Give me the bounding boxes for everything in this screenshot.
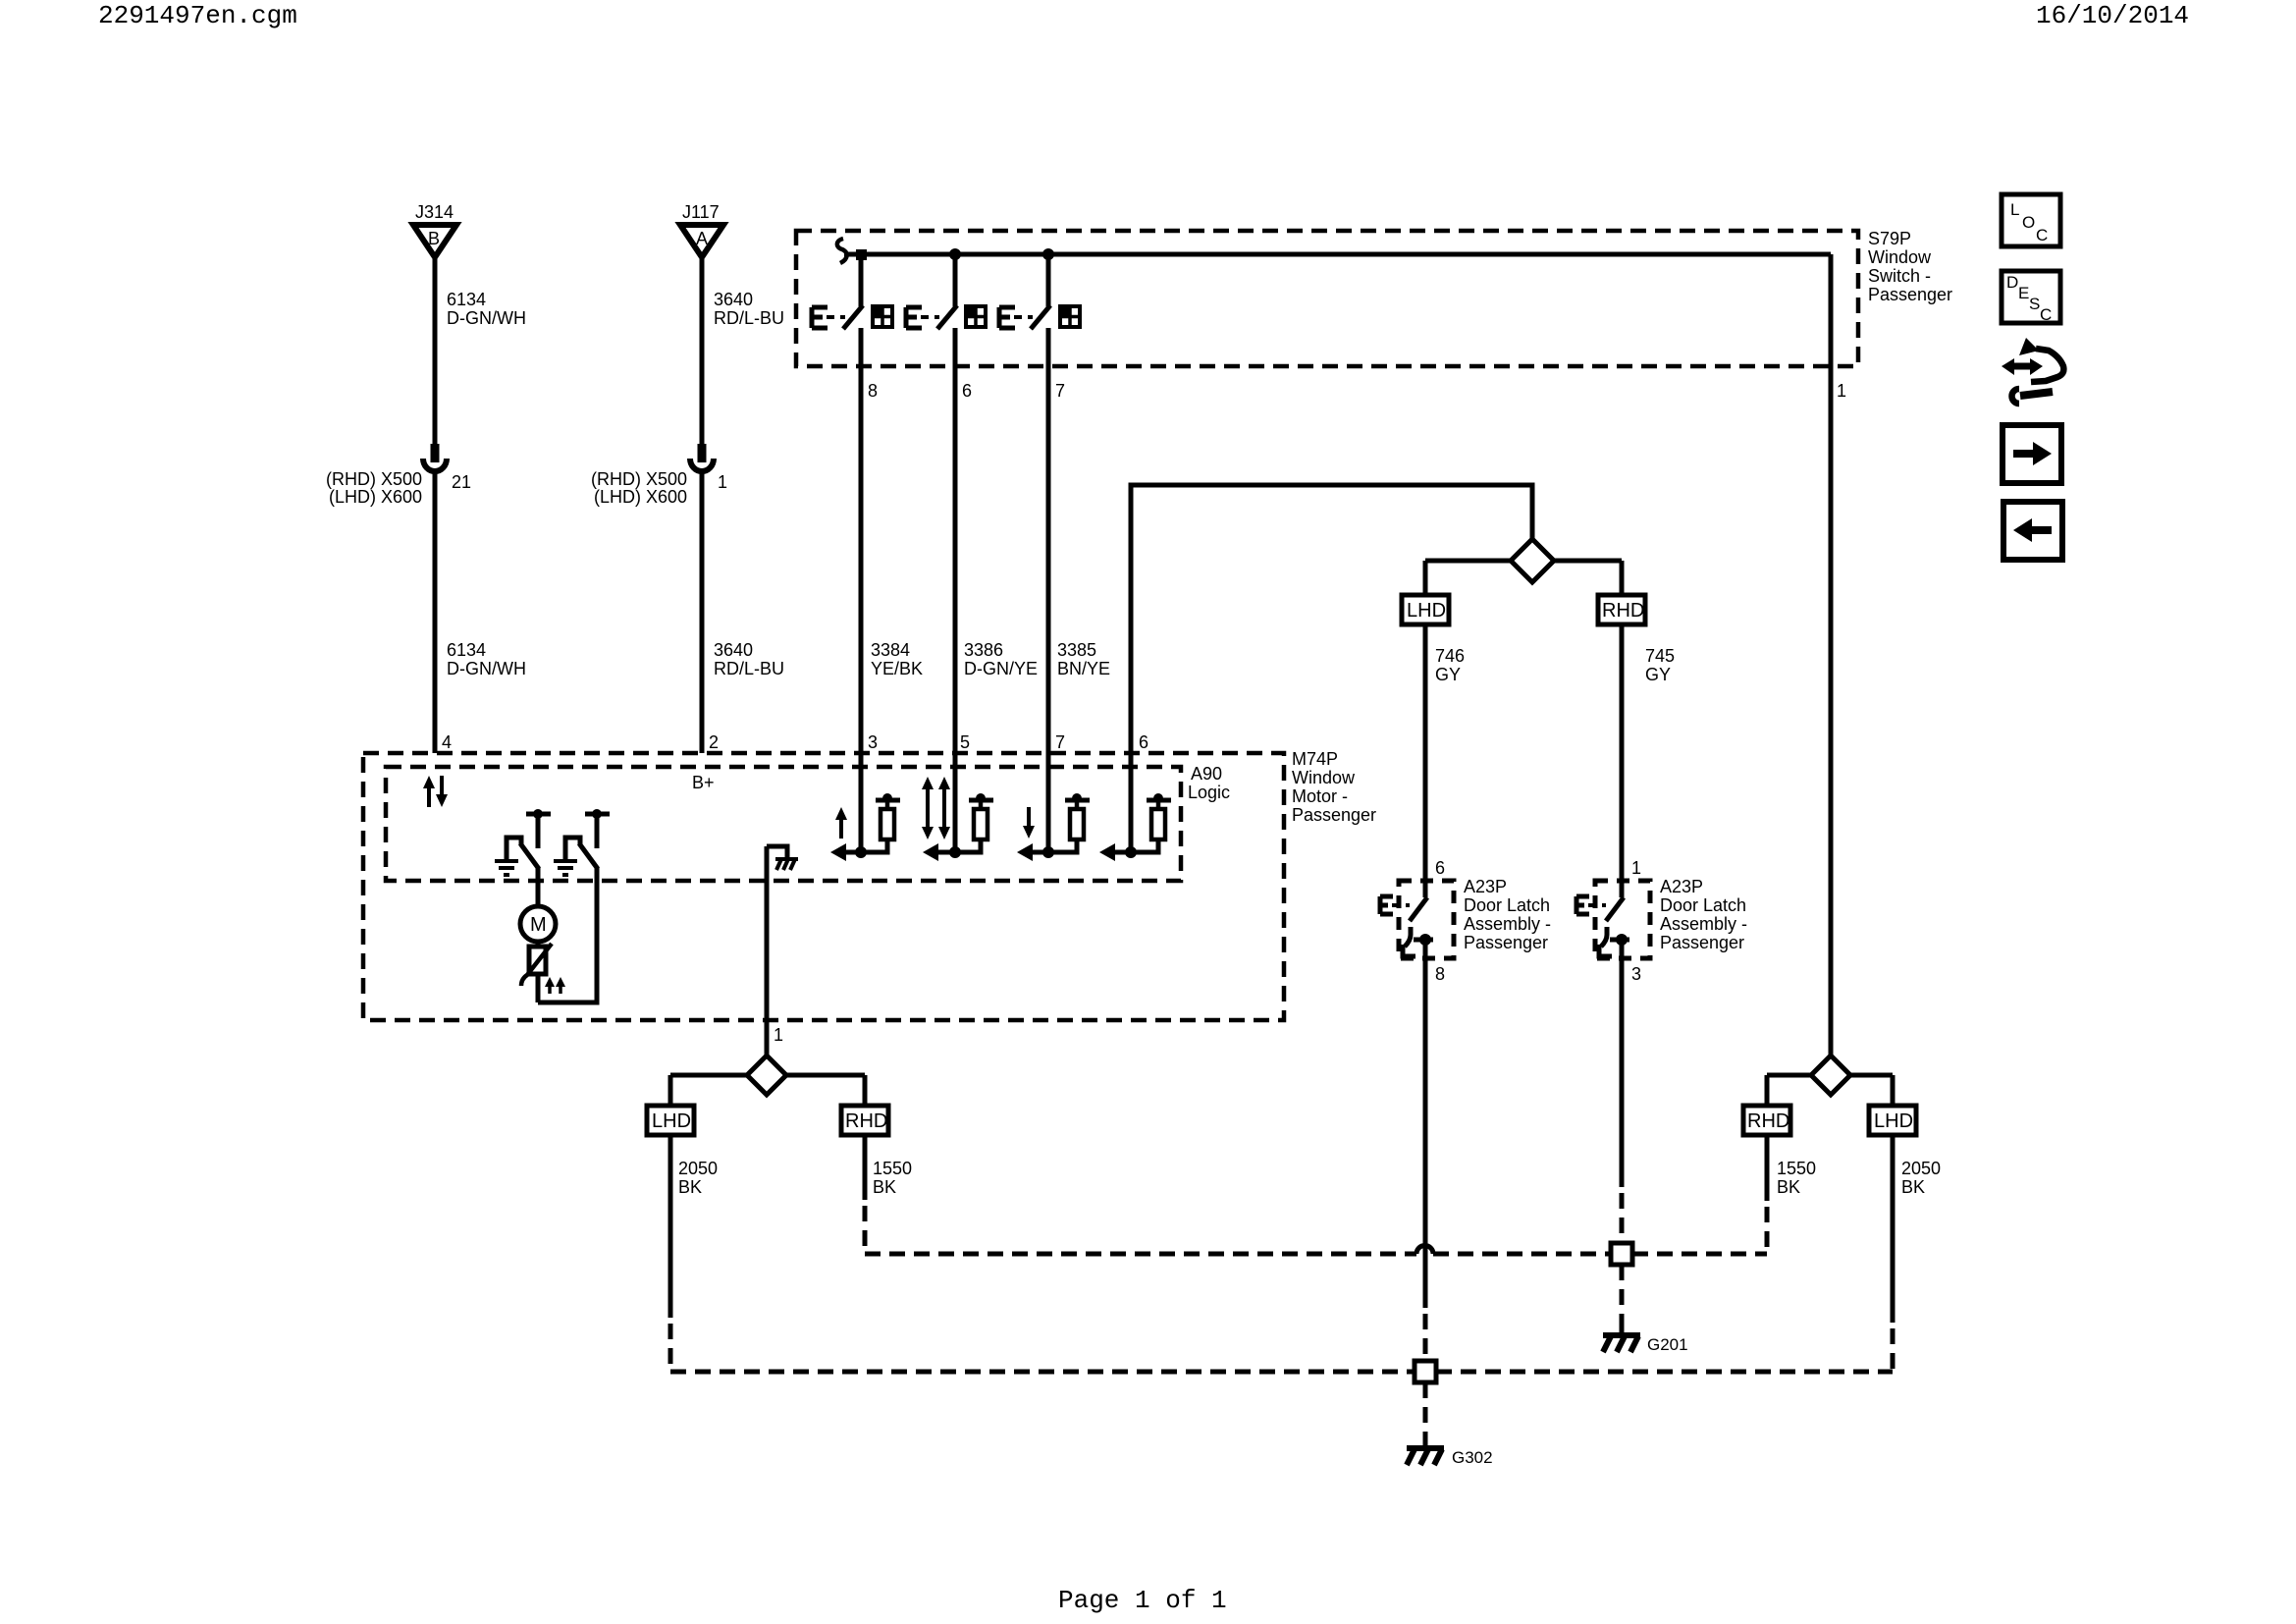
svg-text:16/10/2014: 16/10/2014 [2036,1,2189,30]
ground G302 [1407,1435,1493,1467]
connector J314 triangle B [413,225,456,257]
svg-text:BK: BK [873,1177,896,1197]
connector pin labels (RHD) X500 / (LHD) X600 at J117 [591,469,727,507]
ground G201 [1603,1318,1688,1354]
wire switch pin1 down right side [1829,254,1834,1056]
A90 logic box (dashed) [386,767,1181,881]
svg-text:(LHD) X600: (LHD) X600 [594,487,687,507]
DESC icon box [2002,271,2060,324]
svg-text:1: 1 [1837,381,1846,401]
wire LHD-right down (solid then dashed) [1891,1135,1896,1323]
svg-text:J314: J314 [415,202,454,222]
svg-text:7: 7 [1055,732,1065,752]
svg-text:BN/YE: BN/YE [1057,659,1110,678]
svg-text:L: L [2010,200,2019,219]
svg-text:6: 6 [1435,858,1445,878]
svg-text:Passenger: Passenger [1292,805,1376,825]
svg-text:3385: 3385 [1057,640,1096,660]
wire switch2 down and loop to thermistor [538,868,597,1002]
svg-text:D-GN/WH: D-GN/WH [447,659,526,678]
chassis ground inside motor box [767,846,798,870]
svg-text:J117: J117 [682,202,720,222]
svg-text:G302: G302 [1452,1448,1493,1467]
wire right branch down (right group) [1891,1075,1896,1106]
svg-text:Passenger: Passenger [1660,933,1744,952]
svg-text:21: 21 [452,472,471,492]
diamond splice mid-right [1511,539,1554,582]
S79P window switch box (dashed) [796,231,1858,366]
wire switch1 to motor M [536,868,541,908]
RHD tag box mid [1598,595,1645,624]
svg-text:M74P: M74P [1292,749,1338,769]
switch 3 (window down) [999,254,1080,366]
svg-text:Passenger: Passenger [1868,285,1952,304]
wire diamond to RHD/LHD branches (right) [1767,1073,1893,1078]
svg-text:E: E [2018,284,2029,302]
A90 Logic label [1188,764,1230,802]
svg-text:Door Latch: Door Latch [1660,895,1746,915]
wire diamond to LHD/RHD branches (mid) [1425,559,1622,564]
wire motor pin1 down [765,846,770,1056]
svg-text:6134: 6134 [447,290,486,309]
LHD tag box bottom-left [647,1106,694,1135]
svg-text:B+: B+ [692,773,715,792]
svg-text:6134: 6134 [447,640,486,660]
svg-text:Window: Window [1292,768,1356,787]
svg-text:4: 4 [442,732,452,752]
inline connector X500/X600 (J314 wire) [423,444,447,471]
svg-text:D-GN/WH: D-GN/WH [447,308,526,328]
svg-text:3640: 3640 [714,640,753,660]
svg-text:3386: 3386 [964,640,1003,660]
wire switch pin7 to motor pin7 [1046,366,1051,753]
wire RHD-left down (solid then dashed) [863,1135,868,1200]
M74P label [1292,749,1376,825]
wire left branch down [668,1075,673,1106]
svg-text:O: O [2022,213,2035,232]
svg-text:S79P: S79P [1868,229,1911,248]
A23P label (right latch) [1660,877,1747,952]
connector J117 triangle A [680,225,723,257]
LOC icon box [2002,194,2060,246]
switch box pin labels 8 6 7 1 [868,381,1846,401]
A23P label (left latch) [1464,877,1551,952]
svg-text:2050: 2050 [1901,1159,1941,1178]
svg-text:746: 746 [1435,646,1465,666]
svg-text:YE/BK: YE/BK [871,659,923,678]
door latch assembly A23P (left) [1380,881,1454,958]
driver cell pin 7 [1017,753,1090,861]
svg-text:2: 2 [709,732,719,752]
LHD tag box right [1869,1106,1916,1135]
svg-text:G201: G201 [1647,1335,1688,1354]
trace/route icon [2002,338,2063,404]
back arrow icon [2003,502,2062,560]
driver cell pin 6 [1099,753,1171,861]
ground net A dashed (to G201) [865,1252,1416,1257]
switch 2 (window up/down) [906,254,986,366]
wire 6134 upper [433,257,438,447]
driver cell pin 5 [922,753,993,861]
motor switch 2 with ground [554,809,610,875]
connector pin labels (RHD) X500 / (LHD) X600 at J314 [326,469,471,507]
svg-text:(LHD) X600: (LHD) X600 [329,487,422,507]
junction dot on bus at pin7 branch [1042,248,1054,260]
svg-text:LHD: LHD [1407,600,1446,622]
diamond splice top-right [1811,1056,1850,1095]
diamond splice bottom-left [747,1056,786,1095]
wire diamond to LHD/RHD branches [670,1073,865,1078]
svg-text:BK: BK [1901,1177,1925,1197]
wire RHD-right down (solid then dashed) [1765,1135,1770,1201]
svg-text:745: 745 [1645,646,1675,666]
wire LHD-left down (solid then dashed) [668,1135,673,1318]
svg-text:D: D [2006,273,2018,292]
svg-text:S: S [2029,295,2040,313]
up/down arrows at pin 4 [423,776,448,807]
wire right branch down (mid) [1620,561,1625,595]
junction (square) on bus [856,249,867,260]
svg-text:LHD: LHD [652,1110,691,1132]
svg-text:Window: Window [1868,247,1932,267]
svg-text:RD/L-BU: RD/L-BU [714,659,784,678]
svg-text:Motor -: Motor - [1292,786,1348,806]
wire LHD-mid down to latch [1423,624,1428,897]
svg-text:1: 1 [774,1025,783,1045]
svg-text:A: A [696,229,708,248]
dashed wire to G302 ground [1423,1382,1428,1435]
svg-text:2050: 2050 [678,1159,718,1178]
thermistor below motor [521,942,552,1002]
wire left branch down (mid) [1423,561,1428,595]
driver cell pin 3 [830,753,900,861]
svg-text:Assembly -: Assembly - [1464,914,1551,934]
svg-text:7: 7 [1055,381,1065,401]
bus wire in switch box [844,252,1831,257]
svg-text:Door Latch: Door Latch [1464,895,1550,915]
small up arrows at thermistor [545,977,565,994]
svg-text:3384: 3384 [871,640,910,660]
svg-text:C: C [2036,226,2048,244]
svg-text:M: M [530,914,547,936]
svg-text:3: 3 [1631,964,1641,984]
svg-text:RHD: RHD [1602,600,1644,622]
svg-text:Switch -: Switch - [1868,266,1931,286]
svg-text:(RHD) X500: (RHD) X500 [591,469,687,489]
junction dot on bus at pin6 branch [949,248,961,260]
motor box pin labels 3 5 7 6 [868,732,1148,752]
svg-text:RD/L-BU: RD/L-BU [714,308,784,328]
wire switch pin8 to motor pin3 [859,366,864,753]
svg-text:6: 6 [1139,732,1148,752]
S79P label [1868,229,1952,304]
svg-text:LHD: LHD [1874,1110,1913,1132]
wire latch-right pin3 down [1620,958,1625,1187]
inline connector X500/X600 (J117 wire) [690,444,714,471]
svg-text:Passenger: Passenger [1464,933,1548,952]
svg-text:6: 6 [962,381,972,401]
wire motor pin6 up and right [1131,485,1532,753]
ground net B dashed (to G302) [670,1370,1415,1375]
svg-text:D-GN/YE: D-GN/YE [964,659,1038,678]
svg-text:C: C [2040,305,2052,324]
svg-text:1550: 1550 [1777,1159,1816,1178]
motor switch 1 with ground [495,809,551,875]
svg-text:Page 1 of 1: Page 1 of 1 [1058,1586,1227,1615]
RHD tag box right [1743,1106,1790,1135]
svg-text:BK: BK [1777,1177,1800,1197]
svg-text:3: 3 [868,732,878,752]
wire latch-left pin8 down [1423,958,1428,1308]
svg-text:A90: A90 [1191,764,1222,784]
wire 3640 lower [700,471,705,753]
svg-text:A23P: A23P [1464,877,1507,896]
svg-text:BK: BK [678,1177,702,1197]
switch 1 (window up) [812,254,892,366]
svg-text:3640: 3640 [714,290,753,309]
wire 6134 lower [433,471,438,753]
inline connector square (G302 net) [1415,1361,1436,1382]
bus start curl [837,239,847,263]
svg-text:GY: GY [1435,665,1461,684]
svg-text:GY: GY [1645,665,1671,684]
svg-text:RHD: RHD [1747,1110,1789,1132]
svg-text:(RHD) X500: (RHD) X500 [326,469,422,489]
svg-text:8: 8 [868,381,878,401]
LHD tag box mid [1402,595,1449,624]
svg-text:2291497en.cgm: 2291497en.cgm [98,1,297,30]
door latch assembly A23P (right) [1576,881,1650,958]
svg-text:1: 1 [1631,858,1641,878]
svg-text:A23P: A23P [1660,877,1703,896]
wire left branch down (right group) [1765,1075,1770,1106]
wire RHD-mid down to latch [1620,624,1625,897]
svg-text:8: 8 [1435,964,1445,984]
svg-text:5: 5 [960,732,970,752]
svg-text:Logic: Logic [1188,783,1230,802]
motor M [520,906,556,942]
svg-text:B: B [428,229,440,248]
svg-text:RHD: RHD [845,1110,887,1132]
wire right branch down [863,1075,868,1106]
svg-text:Assembly -: Assembly - [1660,914,1747,934]
next arrow icon [2002,425,2061,483]
svg-text:1: 1 [718,472,727,492]
svg-text:1550: 1550 [873,1159,912,1178]
inline connector square (G201 net) [1611,1243,1632,1265]
wire hop over latch wire [1416,1246,1433,1255]
M74P window motor box (dashed) [363,753,1284,1020]
wire 3640 upper [700,257,705,447]
wire switch pin6 to motor pin5 [953,366,958,753]
dashed wire to G201 ground [1620,1265,1625,1318]
RHD tag box bottom-left [841,1106,888,1135]
